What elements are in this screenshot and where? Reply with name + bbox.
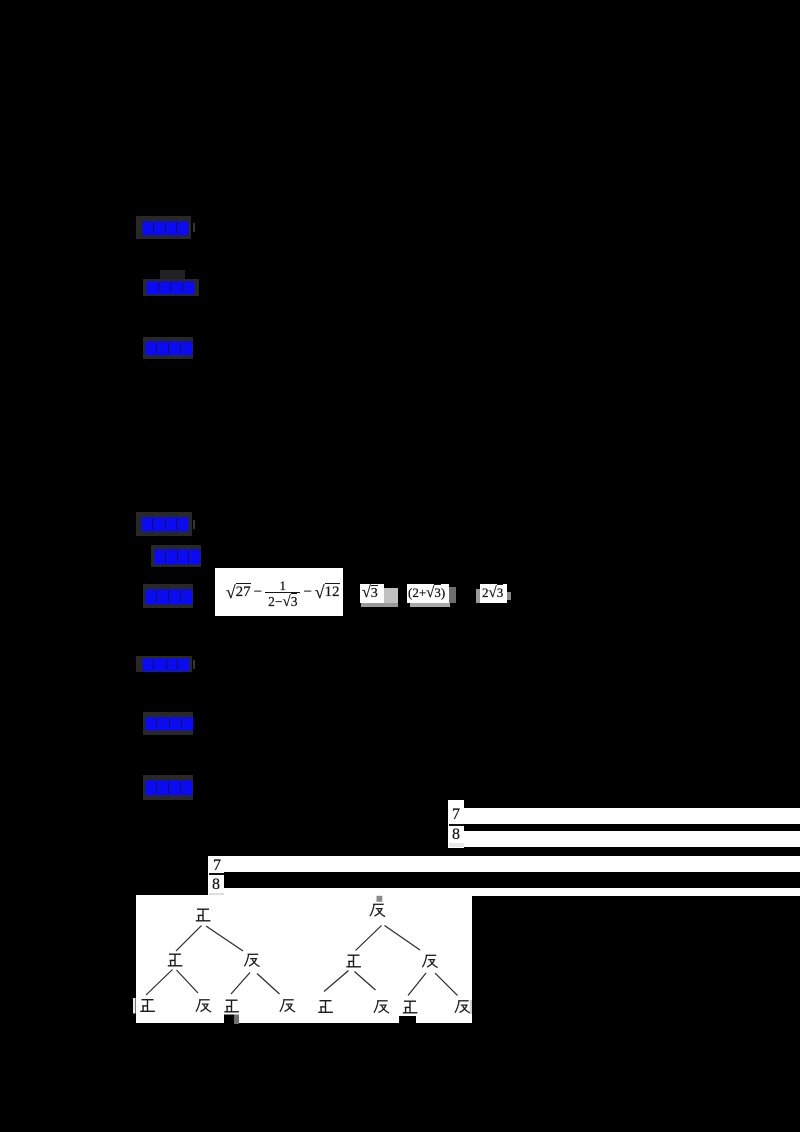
gray pixel above right root <box>377 896 383 902</box>
text-line strip right of second fraction (top) <box>224 856 800 872</box>
fraction 7/8 image (first, in text line) <box>448 800 464 848</box>
black marker under right tree 正 <box>399 1016 416 1024</box>
right tree L2 正 <box>346 955 361 967</box>
left branches L2反-right <box>257 974 280 995</box>
right tree L2 反 <box>422 955 437 967</box>
right tree L3 正 (2) <box>403 1001 418 1013</box>
left tree L2 正 <box>168 954 183 966</box>
label 分析 (problem 1) <box>143 337 193 359</box>
label 考点 (problem 1) <box>136 216 191 239</box>
left branches L2反-left <box>231 973 250 995</box>
faint colon after label 7 <box>193 660 196 669</box>
inline formula image: (2+sqrt3) <box>407 584 449 603</box>
left tree branch root-left <box>176 926 202 952</box>
left tree branch root-right <box>206 926 243 951</box>
right branches L2反-right <box>435 973 458 996</box>
white sliver at tree box left edge <box>133 998 136 1014</box>
tree diagram image background <box>136 895 473 1023</box>
inline formula image: 2sqrt3 <box>476 589 481 603</box>
light bar at tree box right edge <box>470 1000 472 1014</box>
text-line strip right of first fraction (top) <box>464 808 800 824</box>
left tree L3 反 <box>196 1000 211 1012</box>
right tree root 反 <box>370 904 385 916</box>
right branches L2正-left <box>324 971 349 992</box>
text-line strip right of second fraction (bottom) <box>224 888 800 896</box>
label 专题 (problem 3) <box>143 712 193 735</box>
label 解答 (problem 3) <box>143 775 193 800</box>
right tree L3 反 <box>374 1001 389 1013</box>
left tree L3 正 (2) <box>224 1000 239 1012</box>
label 专题 (problem 2, indented) <box>151 545 201 567</box>
label 考点 (problem 2) <box>136 512 192 536</box>
right branches L2反-left <box>408 973 426 996</box>
fraction 7/8 image (second, in text line) <box>208 856 224 896</box>
right tree branch root-right <box>385 926 421 951</box>
left tree L3 正 <box>140 1000 155 1012</box>
left branches L2正-right <box>177 970 199 993</box>
right tree L3 正 <box>318 1001 333 1013</box>
black marker under left tree 正 <box>224 1015 234 1025</box>
inline formula image: sqrt3 <box>360 584 384 603</box>
faint colon after label 4 <box>193 520 196 529</box>
right branches L2正-right <box>355 972 376 991</box>
label 考点 (problem 3) <box>136 656 192 672</box>
left tree L2 反 <box>244 954 259 966</box>
text-line strip right of first fraction (bottom) <box>464 831 800 847</box>
faint colon after label 1 <box>193 223 196 232</box>
label 专题 (problem 1) <box>160 270 185 279</box>
right tree L3 反 (2) <box>455 1001 470 1013</box>
label 解答 (problem 2) <box>143 584 193 608</box>
tree diagram strokes <box>133 885 480 1030</box>
left tree L3 反 (2) <box>280 1000 295 1012</box>
left tree root 正 <box>196 909 211 921</box>
equation image: sqrt27 - 1/(2-sqrt3) - sqrt12 <box>215 568 343 616</box>
left branches L2正-left <box>146 970 173 996</box>
right tree branch root-left <box>356 926 382 951</box>
